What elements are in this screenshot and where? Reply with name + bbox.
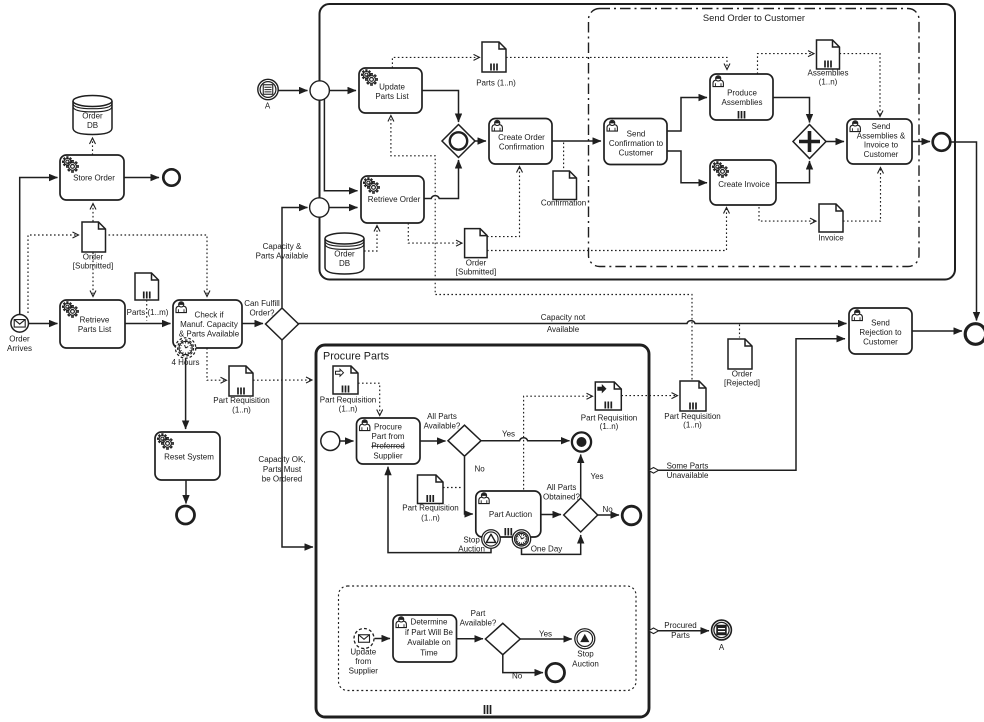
svg-text:Reset System: Reset System (164, 453, 214, 462)
svg-text:Part Requisition: Part Requisition (213, 396, 269, 405)
svg-text:Customer: Customer (864, 150, 899, 159)
svg-text:Yes: Yes (539, 630, 552, 639)
svg-text:Order: Order (466, 259, 487, 268)
svg-text:Order: Order (732, 370, 753, 379)
svg-text:[Rejected]: [Rejected] (724, 378, 760, 387)
svg-text:Stop: Stop (577, 650, 594, 659)
svg-text:Parts (1..m): Parts (1..m) (127, 308, 169, 317)
svg-text:Order: Order (334, 250, 355, 259)
svg-text:Invoice: Invoice (818, 234, 844, 243)
svg-text:No: No (475, 465, 486, 474)
svg-text:Capacity not: Capacity not (541, 313, 586, 322)
svg-text:Part: Part (471, 609, 486, 618)
svg-text:Procure Parts: Procure Parts (323, 351, 390, 363)
svg-text:Preferred: Preferred (371, 442, 404, 451)
svg-text:Part Requisition: Part Requisition (320, 396, 376, 405)
svg-text:Available?: Available? (424, 422, 461, 431)
svg-text:Send: Send (627, 130, 646, 139)
svg-text:(1..n): (1..n) (600, 422, 619, 431)
svg-text:Stop: Stop (463, 535, 480, 544)
svg-text:Retrieve: Retrieve (80, 316, 110, 325)
svg-text:Confirmation: Confirmation (499, 143, 544, 152)
svg-text:& Parts Available: & Parts Available (179, 330, 240, 339)
svg-text:(1..n): (1..n) (232, 406, 251, 415)
svg-text:from: from (355, 657, 371, 666)
svg-text:Parts List: Parts List (375, 92, 409, 101)
svg-text:Retrieve Order: Retrieve Order (368, 195, 421, 204)
svg-text:Create Order: Create Order (498, 133, 545, 142)
svg-text:Check if: Check if (195, 311, 225, 320)
svg-text:Arrives: Arrives (7, 344, 32, 353)
svg-text:Send Order to Customer: Send Order to Customer (703, 12, 805, 23)
svg-text:Capacity OK,: Capacity OK, (258, 455, 305, 464)
svg-text:Assemblies: Assemblies (808, 69, 849, 78)
svg-text:Order: Order (9, 335, 30, 344)
svg-text:Can Fulfill: Can Fulfill (244, 299, 280, 308)
svg-text:[Submitted]: [Submitted] (73, 262, 113, 271)
svg-text:DB: DB (339, 259, 350, 268)
svg-text:Part Requisition: Part Requisition (402, 504, 458, 513)
svg-text:Determine: Determine (411, 618, 448, 627)
svg-text:Confirmation: Confirmation (541, 199, 586, 208)
svg-text:No: No (512, 672, 523, 681)
svg-text:Supplier: Supplier (373, 451, 403, 460)
svg-text:Send: Send (871, 319, 890, 328)
svg-text:Update: Update (350, 648, 376, 657)
svg-text:Parts: Parts (671, 631, 690, 640)
svg-text:Part Auction: Part Auction (489, 510, 532, 519)
svg-text:Time: Time (420, 648, 438, 657)
svg-text:Auction: Auction (572, 660, 599, 669)
svg-text:Available on: Available on (407, 638, 450, 647)
svg-text:Customer: Customer (863, 338, 898, 347)
svg-text:Parts List: Parts List (78, 325, 112, 334)
svg-text:A: A (265, 102, 271, 111)
svg-text:All Parts: All Parts (547, 483, 577, 492)
svg-text:(1..n): (1..n) (819, 78, 838, 87)
svg-text:be Ordered: be Ordered (262, 475, 302, 484)
svg-text:Customer: Customer (619, 149, 654, 158)
svg-text:Available: Available (547, 325, 580, 334)
svg-text:4 Hours: 4 Hours (171, 358, 199, 367)
svg-text:No: No (603, 505, 614, 514)
svg-text:Assemblies &: Assemblies & (857, 131, 906, 140)
svg-text:Parts Must: Parts Must (263, 465, 302, 474)
svg-text:Yes: Yes (591, 472, 604, 481)
svg-text:Rejection to: Rejection to (859, 328, 902, 337)
svg-text:Invoice to: Invoice to (864, 141, 899, 150)
svg-text:Parts (1..n): Parts (1..n) (476, 79, 516, 88)
svg-text:Obtained?: Obtained? (543, 493, 580, 502)
svg-text:Store Order: Store Order (73, 174, 115, 183)
svg-text:Some Parts: Some Parts (667, 462, 709, 471)
svg-text:Capacity &: Capacity & (263, 242, 302, 251)
svg-text:One Day: One Day (531, 545, 563, 554)
svg-text:(1..n): (1..n) (683, 421, 702, 430)
svg-text:Procure: Procure (374, 423, 403, 432)
svg-text:Order?: Order? (250, 309, 275, 318)
svg-text:(1..n): (1..n) (339, 404, 358, 413)
svg-text:Part from: Part from (372, 432, 405, 441)
svg-text:Send: Send (872, 122, 891, 131)
svg-text:if Part Will Be: if Part Will Be (405, 628, 454, 637)
svg-text:DB: DB (87, 121, 98, 130)
svg-text:Create Invoice: Create Invoice (718, 180, 770, 189)
svg-text:Yes: Yes (502, 430, 515, 439)
svg-text:Assemblies: Assemblies (722, 98, 763, 107)
svg-text:Auction: Auction (458, 545, 485, 554)
svg-text:Supplier: Supplier (349, 666, 379, 675)
svg-text:Update: Update (379, 83, 405, 92)
svg-text:Parts Available: Parts Available (256, 252, 309, 261)
svg-text:Produce: Produce (727, 89, 757, 98)
svg-text:A: A (719, 643, 725, 652)
svg-text:Confirmation to: Confirmation to (609, 139, 664, 148)
svg-text:Procured: Procured (664, 621, 696, 630)
svg-text:Order: Order (83, 253, 104, 262)
svg-text:Order: Order (82, 112, 103, 121)
svg-text:[Submitted]: [Submitted] (456, 267, 496, 276)
svg-text:All Parts: All Parts (427, 412, 457, 421)
svg-text:Unavailable: Unavailable (667, 471, 709, 480)
svg-text:Available?: Available? (460, 619, 497, 628)
svg-text:Manuf. Capacity: Manuf. Capacity (180, 320, 238, 329)
svg-text:(1..n): (1..n) (421, 514, 440, 523)
